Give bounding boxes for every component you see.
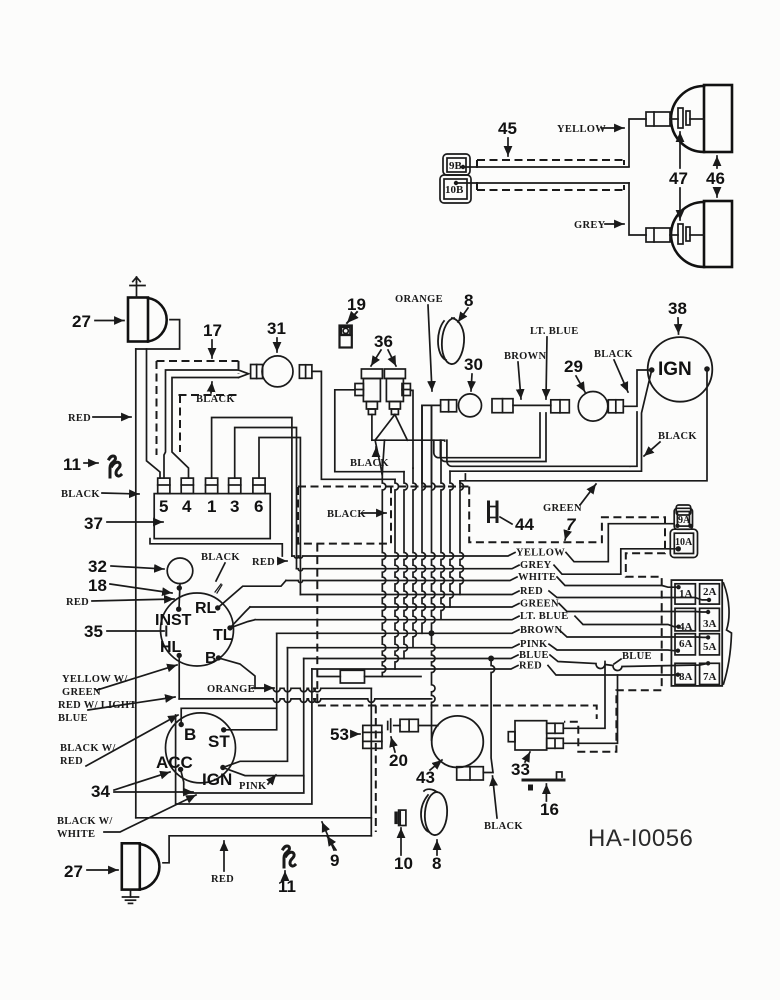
svg-text:4A: 4A: [679, 621, 693, 633]
svg-text:45: 45: [498, 119, 517, 138]
svg-text:GREEN: GREEN: [520, 599, 559, 610]
wire 36 right tab down: [410, 390, 413, 468]
connector right of 29: [608, 400, 623, 413]
wire yellow lamp feed: [629, 119, 646, 166]
wire IGN left dot down: [450, 370, 652, 471]
wire t3 up right nest: [235, 428, 297, 569]
gauge 31: [262, 356, 293, 387]
wire key B up and right: [181, 708, 277, 724]
wire 17 box to 31 upper: [164, 370, 239, 478]
svg-text:GREY: GREY: [520, 560, 552, 571]
svg-text:46: 46: [706, 169, 725, 188]
wire bundle vertical green feed: [450, 471, 454, 607]
svg-text:HA-I0056: HA-I0056: [588, 825, 693, 852]
wire 30 left to bundle: [422, 405, 441, 488]
wire 36 right conn V: [375, 415, 407, 441]
wire bundle vertical 30 feed: [422, 405, 426, 633]
wire row GREY 2: [297, 565, 520, 571]
wire 33 lower to 7A: [563, 675, 617, 743]
wire row RED 4: [300, 591, 519, 595]
connector right of 31: [299, 365, 312, 379]
wire B light to orange: [219, 658, 256, 688]
svg-text:B: B: [184, 725, 196, 744]
wire t6 up right nest: [259, 438, 300, 595]
svg-text:RED: RED: [520, 586, 543, 597]
svg-text:31: 31: [267, 319, 286, 338]
svg-text:BLACK: BLACK: [196, 394, 235, 405]
svg-text:27: 27: [72, 312, 91, 331]
svg-text:7A: 7A: [703, 671, 717, 683]
inner bus wire: [147, 349, 161, 478]
svg-text:YELLOW: YELLOW: [557, 124, 606, 135]
svg-text:WHITE: WHITE: [518, 572, 556, 583]
fuse cell 2A: [700, 584, 720, 604]
wire row WHITE 3: [286, 577, 517, 583]
resistor 29: [578, 392, 608, 422]
svg-text:GREY: GREY: [574, 220, 606, 231]
wire key IGN second: [223, 659, 304, 776]
svg-text:11: 11: [278, 877, 296, 896]
svg-text:8A: 8A: [679, 671, 693, 683]
svg-text:BLACK: BLACK: [327, 509, 366, 520]
svg-text:RED: RED: [211, 874, 234, 885]
svg-text:RED: RED: [519, 661, 542, 672]
connector 10B: [440, 175, 471, 203]
svg-text:RED: RED: [60, 756, 83, 767]
capacitor 44: [489, 502, 498, 522]
connector left of 30: [441, 400, 457, 412]
svg-text:ORANGE: ORANGE: [395, 294, 443, 305]
wire HL down: [178, 655, 180, 699]
terminal tick 35: [165, 627, 167, 636]
svg-text:BLACK W/: BLACK W/: [57, 816, 113, 827]
fuse cell 5A: [700, 634, 720, 655]
svg-text:16: 16: [540, 800, 559, 819]
HL wire across: [179, 699, 431, 703]
svg-text:36: 36: [374, 332, 393, 351]
fuse cell 6A: [675, 634, 695, 655]
antenna mark on lamp 27: [130, 277, 145, 298]
svg-text:WHITE: WHITE: [57, 829, 95, 840]
svg-text:BLUE: BLUE: [622, 651, 652, 662]
connector under 43: [457, 767, 484, 780]
connector 9B: [443, 154, 470, 175]
wire 31 to bundle: [312, 371, 395, 479]
svg-text:5A: 5A: [703, 641, 717, 653]
fuse cell 3A: [700, 608, 720, 631]
svg-text:ACC: ACC: [156, 753, 193, 772]
wire row BROWN 7: [277, 630, 519, 634]
svg-text:BLACK: BLACK: [350, 458, 389, 469]
clamp 10: [394, 810, 406, 825]
svg-text:8: 8: [464, 291, 473, 310]
svg-text:BLACK: BLACK: [594, 349, 633, 360]
svg-text:PINK: PINK: [239, 781, 267, 792]
bracket 16: [523, 772, 564, 791]
svg-text:TL: TL: [213, 627, 233, 644]
buzzer 19: [340, 326, 352, 348]
wire bundle vertical gauge drop: [432, 405, 436, 740]
wire 20 to 43: [418, 725, 438, 727]
terminal block 37: [154, 494, 270, 539]
wire bundle vertical 36V feed: [413, 468, 417, 648]
harness 45 dashed loom: [477, 160, 624, 190]
fuse cell 1A: [675, 584, 695, 604]
wire bundle vertical red feed: [460, 481, 464, 595]
wire 36 tab to down bus: [335, 390, 404, 472]
svg-text:33: 33: [511, 760, 530, 779]
svg-text:HL: HL: [160, 639, 182, 656]
key switch circle 34: [166, 713, 236, 783]
dashed harness box 7 path: [469, 487, 665, 752]
headlamp upper right (46): [671, 85, 732, 152]
svg-text:53: 53: [330, 725, 349, 744]
terminal 4: [181, 478, 193, 494]
svg-text:INST: INST: [155, 612, 192, 629]
svg-text:6: 6: [254, 497, 263, 516]
wire RL to white row: [218, 581, 286, 608]
wire under 37 box wrap: [150, 539, 282, 556]
lamp plug lower (47): [646, 224, 704, 244]
wire row PINK 8: [288, 644, 520, 648]
svg-text:18: 18: [88, 576, 107, 595]
middle wrap box: [176, 669, 312, 804]
wire key ACC down wrap: [181, 769, 304, 793]
lamp plug upper (47): [646, 108, 704, 128]
fuse cell 8A: [675, 663, 695, 684]
terminal 3: [229, 478, 241, 494]
svg-text:3: 3: [230, 497, 239, 516]
wire box below 29: [630, 412, 637, 466]
headlamp lower right (46): [671, 201, 732, 267]
svg-text:44: 44: [515, 515, 534, 534]
svg-text:47: 47: [669, 169, 688, 188]
svg-text:IGN: IGN: [202, 770, 232, 789]
svg-text:BROWN: BROWN: [504, 351, 546, 362]
terminal 6: [253, 478, 265, 494]
wire 36 bottom bar: [372, 439, 445, 442]
svg-text:32: 32: [88, 557, 107, 576]
svg-text:LT. BLUE: LT. BLUE: [520, 611, 569, 622]
svg-text:2A: 2A: [703, 586, 717, 598]
orange wire across: [255, 688, 371, 692]
wire bundle vertical ltblue feed: [441, 440, 445, 620]
svg-text:17: 17: [203, 321, 222, 340]
junction dot blue row: [488, 656, 494, 662]
svg-text:34: 34: [91, 782, 110, 801]
svg-text:29: 29: [564, 357, 583, 376]
connector 9A: [674, 505, 692, 529]
svg-text:GREEN: GREEN: [62, 687, 101, 698]
wire row YELLOW 1: [292, 553, 515, 559]
condenser 20: [388, 719, 419, 732]
light switch terminal dots: [176, 607, 181, 612]
svg-text:LT. BLUE: LT. BLUE: [530, 326, 579, 337]
svg-text:BLACK: BLACK: [484, 821, 523, 832]
terminal 5: [158, 478, 170, 494]
svg-text:1: 1: [207, 497, 216, 516]
svg-text:BLACK: BLACK: [658, 431, 697, 442]
svg-text:YELLOW: YELLOW: [516, 548, 565, 559]
ground symbol lower lamp: [123, 890, 139, 904]
wire IGN right dot down GREEN: [460, 369, 707, 488]
fuse cell 7A: [700, 663, 720, 684]
ignition switch 38: [648, 337, 713, 402]
svg-text:20: 20: [389, 751, 408, 770]
svg-text:10: 10: [394, 854, 413, 873]
light switch circle: [161, 593, 234, 666]
wire row BLUE 9: [304, 655, 518, 659]
svg-text:BLACK: BLACK: [201, 552, 240, 563]
converge arrow into 31: [239, 370, 249, 378]
svg-text:43: 43: [416, 768, 435, 787]
svg-text:1A: 1A: [679, 588, 693, 600]
svg-text:4: 4: [182, 497, 192, 516]
svg-text:BLUE: BLUE: [519, 650, 549, 661]
flasher 30: [459, 394, 482, 417]
svg-text:6A: 6A: [679, 638, 693, 650]
dashed vertical to lamp run: [375, 706, 377, 833]
wire TL to green row: [230, 607, 250, 628]
connector left of 31: [251, 365, 263, 379]
wire key ST right: [224, 633, 277, 730]
dashed vertical mid: [317, 544, 596, 719]
indicator light 32: [167, 558, 193, 584]
wire through connector: [317, 676, 421, 678]
left bus wire (RED): [135, 349, 137, 818]
svg-text:RED: RED: [68, 413, 91, 424]
connector right of 30: [492, 399, 513, 413]
wire 32 to light switch: [179, 584, 180, 609]
svg-text:RED: RED: [252, 557, 275, 568]
connectors 36 right: [384, 369, 410, 415]
svg-text:38: 38: [668, 299, 687, 318]
wire 17 box to 31 lower: [172, 378, 239, 479]
wire 30 to 29: [513, 404, 551, 406]
svg-text:ST: ST: [208, 732, 230, 751]
svg-text:BLACK W/: BLACK W/: [60, 743, 116, 754]
fuse block latch arc: [724, 583, 732, 684]
wire row RED 10: [312, 666, 518, 670]
squiggle 11 lower: [283, 846, 289, 867]
key switch terminal dots: [179, 722, 184, 727]
wire bundle vertical tab feed: [404, 472, 408, 659]
svg-text:35: 35: [84, 622, 103, 641]
svg-text:9B: 9B: [449, 160, 463, 172]
svg-text:PINK: PINK: [520, 639, 548, 650]
gauge 43: [432, 716, 484, 768]
svg-text:GREEN: GREEN: [543, 503, 582, 514]
svg-text:8: 8: [432, 854, 441, 873]
fuse cell 4A: [675, 608, 695, 631]
solenoid 33: [508, 721, 563, 750]
svg-text:BLUE: BLUE: [58, 713, 88, 724]
svg-text:27: 27: [64, 862, 83, 881]
wire 33 upper to blue row: [563, 662, 605, 729]
wire lamp lower to RED run: [163, 836, 371, 863]
wire grey lamp feed: [629, 183, 646, 235]
wire lamp 27 to left bus: [136, 320, 180, 349]
fuse 53: [363, 725, 382, 748]
wire 29 to IGN: [623, 370, 651, 406]
wire 36 drop to bottom: [375, 440, 386, 676]
headlamp 27 upper left: [128, 298, 167, 342]
svg-text:5: 5: [159, 497, 168, 516]
svg-text:3A: 3A: [703, 618, 717, 630]
svg-text:B: B: [205, 650, 217, 667]
svg-text:IGN: IGN: [658, 359, 692, 380]
harness 17 dashed box: [157, 361, 239, 455]
svg-text:7: 7: [566, 515, 577, 534]
wire row GREEN 5: [250, 604, 519, 608]
dashed harness box around 37 feeds: [298, 487, 469, 544]
svg-text:RED: RED: [66, 597, 89, 608]
wire key IGN right: [223, 648, 288, 768]
svg-text:ORANGE: ORANGE: [207, 684, 255, 695]
wire 10B to lamp circuit: [456, 182, 629, 184]
connector 10A: [670, 529, 697, 557]
terminal 1: [206, 478, 218, 494]
outer frame bottom: [136, 817, 371, 819]
svg-text:BROWN: BROWN: [520, 625, 562, 636]
fuse connector block outer: [671, 580, 722, 686]
wire t1 up right nest: [212, 418, 292, 557]
svg-text:37: 37: [84, 514, 103, 533]
curl wires bundle feeders: [434, 413, 540, 458]
svg-text:10B: 10B: [445, 184, 464, 196]
svg-text:30: 30: [464, 355, 483, 374]
wire 36 left conn down: [371, 415, 373, 441]
connectors 36 left: [355, 369, 382, 415]
wire row LT. BLUE 6: [255, 616, 519, 620]
grommet 8 upper: [438, 318, 464, 364]
svg-text:BLACK: BLACK: [61, 489, 100, 500]
svg-text:11: 11: [63, 455, 81, 474]
headlamp 27 lower: [122, 843, 160, 889]
connector left of 29: [551, 400, 570, 413]
wire 9B to lamp circuit: [463, 166, 629, 168]
wire TL to ltblue row: [230, 620, 255, 628]
squiggle 11 upper: [109, 456, 115, 477]
wire bundle vertical 31 feed: [395, 479, 399, 669]
svg-text:9: 9: [330, 851, 339, 870]
junction dot brown row: [429, 630, 435, 636]
wire blue junction drop to 43 area: [483, 659, 494, 773]
grommet 8 lower: [421, 792, 447, 835]
svg-text:RL: RL: [195, 600, 217, 617]
connector rect on wire: [340, 670, 364, 683]
wire 53 drop: [370, 688, 372, 836]
